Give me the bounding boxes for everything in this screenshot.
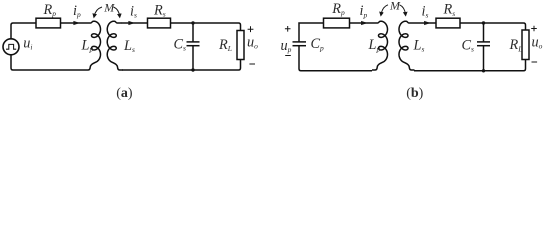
- wire R_s to top-right corner, down to R_L: [171, 23, 241, 31]
- wire R_p to coil with current arrow i_p: [61, 22, 87, 24]
- arrow i_s: [128, 21, 135, 25]
- source u_i (pulse source): [3, 39, 19, 55]
- minus sign: [532, 61, 538, 63]
- wire coil L_s top to R_s with arrow i_s: [414, 22, 437, 24]
- svg-text:Rp: Rp: [43, 2, 57, 18]
- plus sign: [531, 26, 537, 32]
- svg-text:ui: ui: [23, 36, 32, 52]
- resistor R_s: [436, 18, 460, 28]
- svg-text:Cs: Cs: [174, 36, 187, 52]
- wire: coil L_s top to R_s with arrow i_s: [122, 22, 148, 24]
- svg-text:uo: uo: [247, 34, 258, 50]
- capacitor C_p: [293, 41, 307, 43]
- svg-text:(a): (a): [116, 86, 133, 101]
- wire: source bottom to rail: [11, 55, 85, 70]
- capacitor C_s branch: [483, 23, 485, 42]
- wire R_p to coil with arrow i_p: [350, 22, 374, 24]
- wire R_s to top-right corner, down to R_L: [460, 23, 526, 30]
- capacitor C_s branch: [192, 23, 194, 42]
- arrow i_p: [73, 21, 80, 25]
- inductor L_s (secondary coil, mirrored): [107, 21, 123, 70]
- svg-text:Ls: Ls: [413, 38, 425, 54]
- pulse waveform glyph: [6, 44, 16, 49]
- arrow i_s: [424, 21, 431, 25]
- svg-text:Rp: Rp: [331, 1, 345, 17]
- svg-text:uo: uo: [532, 34, 543, 50]
- arrow i_p: [361, 21, 368, 25]
- wire: top-left corner from source to R_p: [11, 23, 36, 39]
- svg-text:Cp: Cp: [311, 36, 325, 52]
- svg-text:Rs: Rs: [153, 2, 166, 18]
- M arrow left: [94, 7, 102, 16]
- M arrow right: [400, 5, 406, 15]
- inductor L_s (secondary coil b, mirrored): [399, 21, 415, 70]
- svg-text:is: is: [422, 4, 429, 20]
- load resistor R_L: [522, 30, 529, 60]
- junction node bottom: [191, 68, 194, 71]
- M arrow left: [381, 5, 388, 15]
- plus sign: [248, 26, 254, 32]
- resistor R_p: [324, 18, 350, 28]
- inductor L_p (primary coil b): [372, 21, 388, 70]
- minus sign: [249, 63, 255, 65]
- plus sign: [285, 26, 291, 32]
- junction node bottom: [482, 69, 485, 72]
- svg-text:Ls: Ls: [123, 38, 135, 54]
- svg-text:Rs: Rs: [443, 2, 456, 18]
- svg-text:ip: ip: [360, 3, 368, 19]
- svg-text:Lp: Lp: [81, 38, 94, 54]
- M arrow right: [114, 7, 120, 16]
- svg-text:Cs: Cs: [462, 38, 475, 54]
- svg-text:RL: RL: [509, 37, 523, 53]
- svg-text:(b): (b): [406, 86, 423, 101]
- junction node top (C_s): [482, 21, 485, 24]
- load resistor R_L: [237, 31, 244, 60]
- wire: top-left corner from C_p to R_p: [299, 23, 324, 42]
- svg-text:ip: ip: [73, 3, 81, 19]
- svg-text:is: is: [130, 3, 137, 19]
- minus sign: [285, 55, 291, 57]
- junction node top (C_s): [191, 21, 194, 24]
- resistor R_s: [148, 18, 171, 28]
- svg-text:M: M: [389, 0, 401, 12]
- svg-text:Lp: Lp: [368, 37, 381, 53]
- svg-text:RL: RL: [218, 37, 232, 53]
- wire R_L bottom to rail, rail back to coil: [122, 60, 241, 71]
- svg-text:up: up: [281, 38, 292, 54]
- resistor R_p: [36, 18, 61, 28]
- wire R_L bottom to rail, rail back to coil: [414, 60, 526, 71]
- inductor L_p (primary coil): [85, 21, 101, 70]
